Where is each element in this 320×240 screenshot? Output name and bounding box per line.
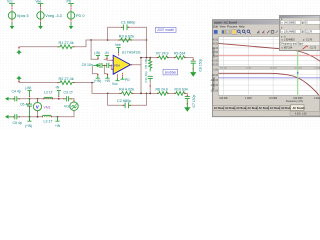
- jumper -IN upper: [104, 51, 109, 59]
- svg-text:+IN: +IN: [55, 124, 61, 128]
- jumper PD bottom pin: [121, 73, 130, 82]
- svg-text:-50.00: -50.00: [211, 75, 218, 77]
- svg-text:-20.00: -20.00: [211, 64, 218, 66]
- wire bottom-left row1: [19, 98, 74, 100]
- svg-text:1.00M: 1.00M: [245, 97, 252, 100]
- port star P1: [16, 47, 22, 55]
- x axis labels: [219, 97, 320, 100]
- wire between R8 R10: [169, 92, 175, 94]
- svg-text:100.00k: 100.00k: [219, 97, 228, 100]
- node R2 drop junction: [91, 82, 93, 84]
- svg-text:21.78: 21.78: [306, 31, 312, 33]
- svg-text:y: -21.78: y: -21.78: [303, 39, 313, 41]
- svg-text:L3 1T: L3 1T: [44, 119, 54, 123]
- arrow out C5: [5, 115, 22, 125]
- svg-text:U1 THS4131: U1 THS4131: [122, 50, 141, 54]
- node bottom row junctions: [107, 93, 151, 95]
- svg-text:-10.00: -10.00: [211, 60, 218, 62]
- wire bottom-left row2: [19, 116, 74, 118]
- svg-text:Vee: Vee: [36, 0, 42, 3]
- svg-text:snubber: snubber: [165, 71, 177, 75]
- toolbar: [213, 30, 320, 35]
- jumper Vee top pin: [115, 43, 121, 55]
- svg-text:x: 146.39MEG: x: 146.39MEG: [281, 23, 296, 25]
- svg-text:Vcc: Vcc: [7, 0, 13, 3]
- label box snubber: [163, 69, 178, 75]
- svg-text:100.00k: 100.00k: [220, 68, 227, 70]
- ground arrow below C7: [185, 104, 190, 111]
- marker line blue: [219, 77, 320, 79]
- svg-text:(-IN): (-IN): [94, 51, 100, 55]
- svg-text:C4 4p: C4 4p: [12, 90, 21, 94]
- svg-text:Vcc: Vcc: [112, 82, 118, 86]
- marker line red: [219, 54, 320, 56]
- svg-text:C2 680p: C2 680p: [117, 99, 131, 103]
- voltage source VS1 Vpos: [7, 0, 29, 29]
- wire R10 to C7: [185, 93, 187, 95]
- node input junctions: [90, 39, 147, 41]
- capacitor C1: [121, 21, 135, 30]
- svg-text:-IN: -IN: [55, 86, 60, 90]
- svg-text:+IN: +IN: [105, 79, 111, 83]
- capacitor C8: [191, 59, 203, 72]
- jumper +IN row2: [55, 117, 61, 128]
- wire bottom row mid: [133, 92, 158, 94]
- title bar: [213, 20, 320, 24]
- inductor L3: [43, 115, 54, 123]
- svg-text:C8 150p: C8 150p: [199, 59, 203, 72]
- jumper +IN lower: [105, 74, 111, 83]
- wire R9 to C8: [185, 58, 193, 61]
- svg-text:PD: PD: [125, 78, 130, 82]
- svg-text:1.00M: 1.00M: [246, 68, 252, 70]
- wire drop to main bottom row: [92, 83, 120, 94]
- svg-text:C5 4p: C5 4p: [13, 121, 22, 125]
- svg-text:1.00G: 1.00G: [314, 68, 320, 70]
- wire bottom input row: [19, 82, 58, 84]
- jumper (-IN) row2: [25, 117, 32, 128]
- capacitor C7: [185, 95, 196, 108]
- curve closed-loop: [219, 73, 319, 95]
- svg-text:C3 1T: C3 1T: [64, 90, 74, 94]
- svg-text:10.00M: 10.00M: [269, 97, 277, 100]
- plot upper gain axes: [211, 37, 320, 67]
- wire top output row: [141, 57, 158, 59]
- wire hook to jumper (+IN) lower: [92, 66, 98, 74]
- wire C2 feedback loop: [108, 93, 147, 105]
- svg-text:C9 10n: C9 10n: [82, 63, 93, 67]
- tab bar: [213, 105, 305, 111]
- resistor R1: [58, 41, 74, 48]
- svg-text:0.00: 0.00: [214, 70, 219, 72]
- svg-text:C1 680p: C1 680p: [121, 21, 135, 25]
- wire hook upper to jumper (-IN): [91, 40, 107, 59]
- svg-text:(+IN): (+IN): [94, 79, 101, 83]
- arrow out C4: [5, 90, 21, 101]
- svg-text:C7 150p: C7 150p: [192, 95, 196, 108]
- wire output riser from op-amp tip: [131, 58, 142, 94]
- capacitor C2: [117, 99, 131, 108]
- capacitor C9 input: [82, 63, 105, 67]
- svg-text:Vneg -3.3: Vneg -3.3: [45, 14, 61, 18]
- voltage source VS3 PD: [67, 0, 85, 29]
- svg-text:x: 1.914MEG: x: 1.914MEG: [281, 39, 295, 41]
- node row1 junctions: [29, 98, 60, 100]
- jumper (+IN) lower: [94, 74, 101, 83]
- svg-text:-21.73: -21.73: [310, 48, 317, 50]
- resistor R10: [175, 87, 188, 95]
- svg-text:1.00G: 1.00G: [314, 97, 320, 100]
- cursor readout panel: [279, 15, 320, 50]
- ground arrow below C8: [191, 69, 196, 76]
- svg-text:VM1: VM1: [44, 105, 51, 109]
- op-amp U1 THS4131: [113, 50, 141, 74]
- snubber chain R5 C11: [144, 58, 152, 94]
- svg-text:10.00M: 10.00M: [270, 68, 277, 70]
- capacitor C6 vertical: [20, 99, 32, 117]
- svg-text:(-IN): (-IN): [25, 86, 31, 90]
- svg-text:Frequency (Hz): Frequency (Hz): [286, 100, 303, 103]
- svg-text:R3 4.02k: R3 4.02k: [119, 34, 134, 38]
- x tick labels upper plot: [220, 68, 320, 70]
- capacitor C5: [14, 115, 20, 119]
- voltmeter VM1: [33, 99, 50, 117]
- resistor R3: [119, 34, 134, 41]
- label box 2007 model: [155, 27, 176, 32]
- port star P2: [16, 75, 22, 82]
- svg-text:FDA: FDA: [114, 63, 120, 67]
- jumper (+IN) row1: [25, 86, 31, 97]
- node row2 junctions: [29, 116, 59, 118]
- svg-text:R8 24.9: R8 24.9: [156, 87, 168, 91]
- capacitor C4: [14, 97, 20, 101]
- svg-text:a - b: a - b: [281, 36, 286, 38]
- jumper (-IN) upper: [94, 51, 100, 59]
- wire op-amp input stubs: [107, 59, 113, 69]
- resistor R2: [58, 77, 74, 85]
- svg-text:Frequency and Slope: Frequency and Slope: [281, 43, 304, 46]
- svg-text:C11 10p: C11 10p: [144, 71, 148, 82]
- svg-text:Vee: Vee: [115, 43, 121, 47]
- svg-text:2007 model: 2007 model: [157, 28, 174, 32]
- cursor line green: [297, 51, 299, 96]
- svg-text:4.02k 1:08: 4.02k 1:08: [295, 113, 307, 115]
- resistor R4: [119, 88, 134, 96]
- svg-text:Vpos 5: Vpos 5: [17, 14, 29, 18]
- wire R1 to bend: [74, 40, 147, 47]
- plot lower phase axes: [210, 69, 320, 95]
- capacitor C3: [64, 90, 74, 101]
- window frame: [213, 20, 320, 117]
- svg-text:PD: PD: [67, 0, 72, 3]
- svg-text:x: 987.334: x: 987.334: [281, 48, 292, 50]
- wire feedback riser to output row: [146, 40, 148, 58]
- wire hook to jumper +IN lower: [104, 65, 107, 73]
- node output row junctions: [140, 57, 151, 59]
- svg-text:-IN: -IN: [104, 51, 109, 55]
- cursor marker blue: [297, 72, 299, 73]
- svg-text:x: 139.34MEG: x: 139.34MEG: [281, 31, 296, 33]
- jumper Vcc bottom pin: [112, 75, 119, 87]
- svg-text:Gain (dB): Gain (dB): [213, 48, 216, 58]
- svg-text:40.00: 40.00: [212, 40, 218, 42]
- svg-text:Edit View Process Help: Edit View Process Help: [213, 25, 245, 29]
- pin markers: [13, 27, 194, 118]
- svg-text:Phase [deg]: Phase [deg]: [212, 77, 215, 90]
- wire C1 feedback loop: [108, 27, 147, 40]
- jumper -IN row1: [55, 86, 61, 98]
- curve open-loop gain: [219, 43, 320, 61]
- svg-text:R5 100: R5 100: [144, 58, 148, 68]
- capacitor C10 input: [105, 63, 113, 67]
- wire R2 to jumpers: [74, 82, 94, 84]
- generator VG1: [64, 99, 78, 117]
- svg-text:VG1: VG1: [64, 105, 71, 109]
- svg-text:AC Bode8: AC Bode8: [293, 107, 306, 110]
- svg-text:30.00: 30.00: [212, 44, 218, 46]
- svg-text:L2 1T: L2 1T: [44, 90, 54, 94]
- wire between R7 R9: [169, 57, 175, 59]
- wire top input row: [19, 46, 58, 48]
- inductor L2: [44, 90, 54, 98]
- svg-text:PD 0: PD 0: [76, 14, 84, 18]
- resistor R8: [156, 87, 169, 95]
- svg-text:(+IN): (+IN): [25, 124, 32, 128]
- resistor R9: [174, 52, 186, 60]
- status bar: [213, 111, 320, 116]
- resistor R7: [156, 52, 168, 60]
- voltage source VS2 Vneg: [36, 0, 62, 29]
